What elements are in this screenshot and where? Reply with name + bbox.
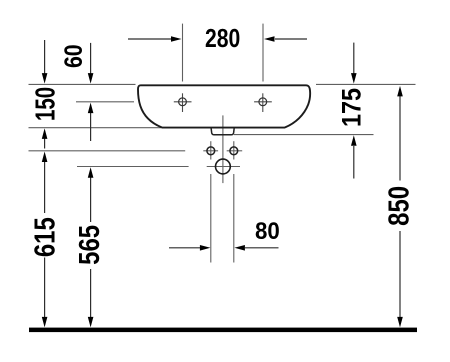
svg-text:565: 565 xyxy=(73,225,105,265)
svg-text:175: 175 xyxy=(337,88,367,127)
svg-text:60: 60 xyxy=(59,44,87,68)
svg-text:615: 615 xyxy=(29,217,61,257)
svg-text:280: 280 xyxy=(205,24,240,52)
svg-text:80: 80 xyxy=(255,217,280,244)
svg-text:150: 150 xyxy=(31,87,62,121)
svg-text:850: 850 xyxy=(382,186,414,226)
